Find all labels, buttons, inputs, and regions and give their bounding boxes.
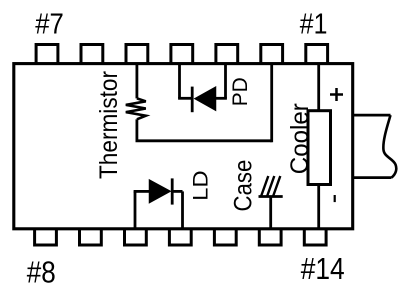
laser diode LD cathode bar: [171, 178, 174, 204]
pin 7 (top row, leftmost): [36, 45, 58, 64]
wire cooler top (from pin 1 edge): [317, 64, 320, 111]
wire from pin 5 down to thermistor: [135, 64, 138, 99]
chassis ground hatch 1: [261, 176, 268, 197]
wire LD left leg down to bottom edge: [134, 191, 137, 228]
wire LD right leg down to bottom edge: [181, 191, 184, 228]
minus sign (cooler -): [334, 195, 336, 202]
pin 6 (top row): [81, 45, 103, 64]
wire riser to top edge: [270, 64, 273, 143]
photodiode PD triangle: [195, 87, 215, 110]
svg-text:#7: #7: [35, 8, 64, 40]
svg-text:Thermistor: Thermistor: [95, 71, 123, 179]
wire case ground to bottom edge: [269, 197, 272, 229]
wire thermistor bottom: [135, 119, 138, 141]
fiber break squiggle: [383, 115, 396, 178]
svg-text:PD: PD: [228, 77, 252, 106]
pin 3 (top row): [216, 45, 238, 64]
pin 12 (bottom row): [214, 229, 236, 245]
wire PD right stub: [215, 97, 227, 100]
svg-text:#14: #14: [301, 251, 345, 286]
svg-text:#1: #1: [300, 9, 328, 41]
svg-text:LD: LD: [188, 170, 212, 201]
photodiode PD cathode bar: [191, 87, 194, 113]
wire PD anode stub: [178, 97, 192, 100]
wire LD anode stub: [134, 190, 150, 193]
wire from top edge down (PD left leg): [178, 64, 181, 99]
pin 10 (bottom row): [125, 229, 147, 245]
wire LD right stub: [172, 190, 182, 193]
pin 14 (bottom row, rightmost): [304, 229, 326, 245]
package body outline: [14, 64, 353, 229]
wire from top edge down (PD right leg): [224, 64, 227, 99]
svg-text:Case: Case: [230, 160, 258, 212]
chassis ground hatch 3: [273, 176, 280, 197]
fiber pigtail top line: [353, 114, 391, 117]
pin 5 (top row): [126, 45, 148, 64]
laser diode LD triangle: [150, 180, 171, 202]
pin 9 (bottom row): [80, 229, 102, 245]
pin 1 (top row, rightmost): [306, 45, 328, 64]
pin 11 (bottom row): [169, 229, 191, 245]
pin 2 (top row): [261, 45, 283, 64]
plus sign (cooler +): [330, 88, 343, 101]
pin 8 (bottom row, leftmost): [35, 229, 57, 245]
chassis ground hatch 2: [267, 176, 274, 197]
chassis ground (case) bar: [259, 195, 283, 198]
pin 13 (bottom row): [259, 229, 281, 245]
pin 4 (top row): [171, 45, 193, 64]
wire cooler bottom (to pin 14 edge): [317, 185, 320, 229]
cooler TEC rectangle: [308, 111, 331, 185]
svg-text:Cooler: Cooler: [286, 103, 314, 174]
fiber pigtail bottom line: [353, 176, 392, 179]
svg-text:#8: #8: [27, 254, 56, 289]
thermistor RT zigzag: [126, 98, 146, 119]
wire thermistor return (bottom horizontal): [136, 139, 272, 142]
